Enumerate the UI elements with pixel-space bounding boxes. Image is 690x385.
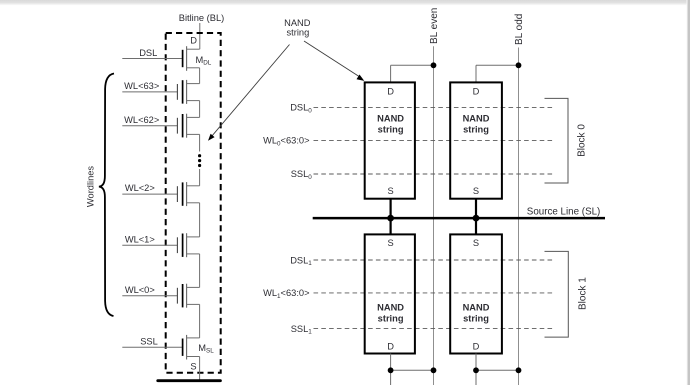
wire WL62 source downward [199, 134, 201, 151]
svg-text:NAND: NAND [377, 114, 404, 124]
svg-text:S: S [473, 186, 479, 196]
svg-text:WL<63>: WL<63> [124, 81, 159, 91]
svg-text:string: string [463, 314, 489, 324]
Wordlines brace [99, 74, 114, 317]
svg-text:Source Line (SL): Source Line (SL) [527, 207, 601, 218]
SSL1 label [291, 324, 313, 336]
svg-text:Wordlines: Wordlines [85, 166, 95, 208]
node S (bottom of string) [190, 361, 196, 371]
svg-text:SSL: SSL [140, 336, 158, 346]
WL0<63:0> dashed line [314, 139, 554, 141]
wire bitline to MDL drain [199, 23, 201, 49]
svg-text:BL even: BL even [429, 8, 440, 44]
junction dot bottom even b [431, 367, 437, 373]
svg-text:NAND: NAND [463, 114, 490, 124]
Block 0 label [577, 124, 588, 157]
svg-text:Block 1: Block 1 [578, 277, 589, 310]
junction dot bottom even a [388, 367, 394, 373]
wire WL1 source to WL0 drain [199, 254, 201, 288]
SSL label [140, 336, 158, 346]
svg-text:string: string [287, 28, 310, 38]
wire MSL source to source bar [199, 357, 201, 381]
WL<62> label [124, 115, 159, 125]
wire WL<1> gate lead [122, 244, 177, 246]
SSL0 label [291, 169, 313, 181]
svg-text:BL odd: BL odd [514, 14, 525, 45]
BL odd label [514, 14, 525, 45]
svg-text:S: S [387, 238, 393, 248]
WL<1> label [125, 234, 155, 244]
node D (top of string) [190, 35, 197, 45]
WL<63> label [124, 81, 159, 91]
svg-text:string: string [463, 125, 489, 135]
junction dot SL odd [473, 215, 480, 222]
junction dot BL odd top [516, 62, 522, 68]
junction dot SL even [387, 215, 394, 222]
svg-text:WL<1>: WL<1> [125, 234, 155, 244]
wire block B source to SL [475, 199, 477, 235]
wire WL<0> gate lead [122, 295, 177, 297]
wire WL<2> gate lead [122, 193, 177, 195]
svg-text:NAND: NAND [463, 302, 490, 312]
callout arrow to NAND string block [304, 41, 364, 81]
svg-text:NAND: NAND [284, 18, 311, 28]
svg-text:WL<62>: WL<62> [124, 115, 159, 125]
transistor MDL (drain select) [183, 46, 200, 71]
wire WL63 source to WL62 drain [199, 101, 201, 118]
svg-text:string: string [378, 125, 404, 135]
Source Line (SL) label [527, 207, 601, 218]
wire MDL source to WL63 drain [199, 68, 201, 84]
junction dot bottom odd b [516, 367, 522, 373]
WL1<63:0> label [263, 288, 309, 300]
transistor MSL (source select) [183, 335, 200, 360]
svg-text:Bitline (BL): Bitline (BL) [179, 13, 224, 23]
svg-text:D: D [190, 35, 197, 45]
junction dot bottom odd a [473, 367, 479, 373]
label MSL [198, 343, 214, 355]
svg-text:D: D [387, 341, 394, 351]
Wordlines label [85, 166, 95, 208]
wire block D drain to BL odd bottom [476, 354, 519, 385]
WL<0> label [125, 285, 155, 295]
svg-text:WL<0>: WL<0> [125, 285, 155, 295]
svg-text:NAND: NAND [377, 302, 404, 312]
wire block A source to SL [390, 199, 392, 235]
WL1<63:0> dashed line [314, 292, 554, 294]
Block 1 bracket [545, 251, 569, 337]
NAND string block A (block0 even) [365, 82, 415, 198]
ellipsis dots (omitted cells) [198, 154, 201, 167]
DSL1 dashed line [314, 259, 554, 261]
BL even label [429, 8, 440, 44]
source bar (thick) [158, 379, 221, 382]
svg-text:WL<2>: WL<2> [125, 183, 155, 193]
wire DSL gate lead [122, 58, 182, 60]
svg-text:string: string [378, 314, 404, 324]
DSL0 dashed line [314, 107, 554, 109]
wire NAND string A drain to BL even [391, 65, 434, 82]
svg-text:S: S [387, 186, 393, 196]
Block 0 bracket [545, 98, 569, 183]
svg-text:DSL: DSL [139, 48, 157, 58]
transistor cell WL<63> [177, 80, 199, 104]
Block 1 label [578, 277, 589, 310]
NAND string callout label [284, 18, 311, 38]
Source Line (SL) [313, 217, 605, 220]
transistor cell WL<62> [177, 114, 199, 138]
svg-text:D: D [473, 341, 480, 351]
wire WL0 source to MSL drain [199, 304, 201, 338]
wire WL2 source to WL1 drain [199, 203, 201, 237]
NAND string block C (block1 even) [365, 234, 415, 353]
transistor cell WL<2> [177, 182, 199, 206]
callout arrow to left schematic [208, 45, 290, 141]
DSL label [139, 48, 157, 58]
svg-text:D: D [473, 87, 480, 97]
BL even line [433, 46, 435, 385]
wire SSL gate lead [122, 346, 182, 348]
wire WL<62> gate lead [122, 125, 177, 127]
SSL1 dashed line [314, 328, 554, 330]
DSL1 label [290, 255, 312, 267]
BL odd line [518, 48, 520, 385]
DSL0 label [290, 103, 312, 115]
wire block C drain to BL even bottom [391, 354, 434, 385]
Bitline (BL) label [179, 13, 224, 23]
svg-text:D: D [387, 87, 394, 97]
NAND string dashed boundary box [166, 33, 221, 373]
svg-text:Block 0: Block 0 [577, 124, 588, 157]
NAND string block D (block1 odd) [450, 234, 502, 353]
WL0<63:0> label [263, 136, 309, 148]
junction dot BL even top [431, 62, 437, 68]
wire WL<63> gate lead [122, 91, 177, 93]
wire NAND string B drain to BL odd [476, 65, 519, 82]
svg-text:S: S [473, 238, 479, 248]
label MDL [196, 55, 212, 67]
transistor cell WL<0> [177, 284, 199, 308]
NAND string block B (block0 odd) [450, 82, 502, 198]
transistor cell WL<1> [177, 233, 199, 257]
SSL0 dashed line [314, 173, 554, 175]
svg-text:S: S [190, 361, 196, 371]
wire down to WL2 drain [199, 169, 201, 186]
WL<2> label [125, 183, 155, 193]
